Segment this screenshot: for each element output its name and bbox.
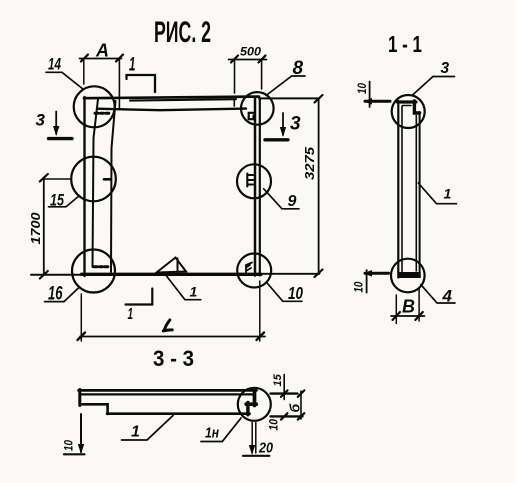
label 15 (49, 192, 80, 210)
label 4 (421, 285, 455, 306)
plate right hook bar down (253, 392, 257, 406)
detail circle 15 (71, 157, 116, 202)
svg-text:14: 14 (48, 56, 61, 74)
section mark 1 upper (127, 55, 156, 93)
detail circle 16 (72, 250, 115, 293)
label 9 (264, 189, 299, 210)
channel outer left line (397, 101, 399, 278)
label 1 of 3-3 (122, 416, 174, 441)
frame bottom rail thick line (82, 273, 262, 276)
dim b right of 3-3 (271, 390, 305, 419)
frame top rail outer line (84, 97, 259, 99)
svg-text:В: В (402, 297, 415, 317)
dim 10 bottom of 1-1 (354, 270, 389, 293)
dim 15 right of 3-3 (271, 373, 298, 399)
section mark 1 lower (126, 289, 153, 324)
dimension 500 top-right (229, 45, 267, 107)
top rail extension to 3275 dim (259, 97, 320, 99)
label 3 (412, 60, 455, 96)
channel inner left line (402, 106, 411, 273)
plate left step (80, 404, 108, 414)
dim 10 left of 3-3 (64, 414, 85, 454)
frame right column inner line (259, 98, 261, 276)
detail circle 3 (392, 95, 425, 128)
plate top line outer (79, 389, 257, 392)
svg-text:1: 1 (128, 306, 134, 323)
channel top hook vertical (414, 101, 419, 113)
label 14 (46, 56, 84, 90)
dotted hinge line bottom-left (94, 265, 108, 268)
weld mark inside circle 15 (104, 178, 111, 181)
angle detail inside circle 10 (246, 263, 252, 275)
svg-text:3: 3 (36, 111, 46, 130)
channel bottom cap (398, 272, 421, 278)
frame top rail inner line (97, 109, 246, 111)
detail circle 8 (241, 92, 274, 125)
svg-text:10: 10 (269, 418, 281, 430)
plate left edge (78, 390, 81, 406)
svg-text:3 - 3: 3 - 3 (153, 346, 194, 371)
svg-text:3: 3 (441, 60, 450, 77)
label 16 (45, 284, 80, 305)
detail circle 14 (74, 86, 115, 127)
svg-text:3275: 3275 (302, 146, 317, 180)
svg-text:1: 1 (129, 55, 136, 76)
plate right hook lower bar (246, 402, 249, 414)
section mark 3 right (265, 113, 301, 140)
frame right column outer line (254, 97, 257, 276)
svg-text:10: 10 (357, 82, 369, 94)
svg-text:А: А (95, 41, 109, 61)
label 8 (266, 58, 305, 96)
hook detail inside circle 8 (249, 113, 255, 119)
channel top cap (397, 100, 416, 103)
svg-text:б: б (287, 404, 303, 413)
svg-text:9: 9 (288, 193, 297, 210)
label 10 (267, 283, 303, 303)
detail circle 9 (237, 164, 271, 198)
frame left column inner line (111, 101, 116, 272)
plate top line inner (80, 393, 253, 395)
label 1н of 3-3 (201, 418, 241, 442)
svg-text:1 - 1: 1 - 1 (388, 31, 422, 57)
top rail overdraw stroke (130, 99, 236, 100)
svg-text:10: 10 (64, 439, 76, 451)
dimension L bottom (78, 281, 266, 341)
dim 10 top of 1-1 (357, 82, 390, 108)
detail circle 10 (237, 254, 271, 288)
dimension B of 1-1 (391, 288, 425, 324)
dim 10 lower right of 3-3 (269, 418, 281, 430)
svg-text:1н: 1н (205, 426, 219, 442)
svg-text:1: 1 (131, 424, 140, 441)
svg-text:1: 1 (444, 186, 452, 202)
dim 20 below 3-3 (243, 423, 274, 457)
svg-text:15: 15 (272, 373, 284, 386)
svg-text:20: 20 (258, 440, 273, 457)
frame left column outer line (83, 97, 85, 276)
label 1 leader (418, 183, 456, 204)
channel outer right line (419, 112, 421, 277)
svg-text:РИС. 2: РИС. 2 (154, 16, 211, 49)
bottom rail extension to 3275 dim (261, 273, 320, 275)
plate right hook step bar (246, 402, 256, 406)
dimension 1700 left (28, 174, 70, 279)
channel inner right line (415, 116, 417, 272)
support triangle on bottom rail (157, 258, 187, 273)
bottom rail extension left to 1700 dim (31, 274, 82, 276)
detail circle 1н (238, 388, 271, 421)
plate detail inside circle 9 (247, 174, 253, 187)
svg-text:500: 500 (240, 45, 261, 59)
plate bottom line (107, 412, 250, 415)
dimension 3275 right (302, 95, 323, 277)
label 1 triangle leader (167, 276, 201, 300)
svg-text:3: 3 (290, 114, 301, 135)
detail circle 4 (391, 259, 425, 293)
dotted hinge line top-left (95, 112, 111, 115)
svg-text:1700: 1700 (28, 212, 43, 245)
svg-text:1: 1 (190, 284, 198, 300)
frame left column mid line (93, 99, 99, 267)
svg-text:10: 10 (354, 281, 366, 293)
dimension A top-left (80, 41, 124, 110)
section mark 3 left (36, 111, 73, 139)
svg-text:10: 10 (288, 283, 303, 303)
